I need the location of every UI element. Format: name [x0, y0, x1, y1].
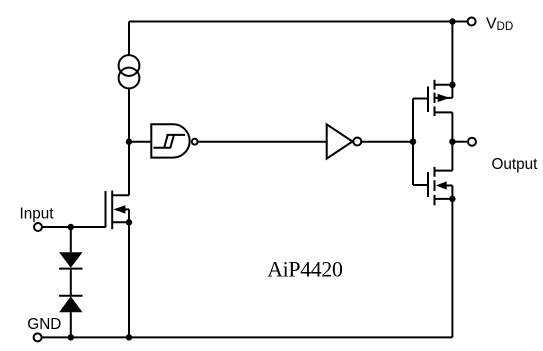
wire input node to D1 anode: [70, 227, 72, 252]
wire Q3 source to bottom rail: [128, 222, 130, 337]
transistor Q3 channel bar: [111, 191, 113, 230]
terminal Input pin: [34, 223, 42, 231]
wire left bus upper segment: [128, 22, 130, 56]
schmitt trigger U1 body: [151, 124, 189, 157]
node A schmitt input junction: [126, 139, 132, 145]
node VDD junction: [449, 18, 455, 24]
transistor Q2 gate bar: [427, 172, 429, 197]
transistor Q3 gate bar: [105, 191, 107, 228]
wire Q1 source to top rail: [451, 22, 453, 85]
wire output node to terminal: [452, 141, 468, 143]
transistor Q3 body arrow (N-channel): [125, 209, 129, 222]
node Q1 body-source dot: [449, 82, 455, 88]
label VDD: [486, 16, 513, 34]
label Output: [492, 156, 539, 173]
label GND: [27, 316, 61, 333]
node Q3 body-source dot: [126, 219, 132, 225]
wire node A to schmitt input: [129, 141, 151, 143]
node input diode junction: [68, 224, 74, 230]
transistor Q2 drain lead: [435, 170, 453, 172]
wire VDD stub to terminal: [452, 21, 467, 23]
wire Q3 drain to node A bus: [128, 142, 130, 196]
svg-text:V: V: [486, 16, 497, 33]
wire D2 anode to bottom rail: [70, 312, 72, 337]
wire Q2 source to bottom rail: [451, 199, 453, 338]
hysteresis symbol of U1: [154, 135, 186, 148]
inverter U2 triangle: [327, 124, 353, 158]
node gate bus junction: [410, 139, 416, 145]
terminal Output pin: [468, 138, 476, 146]
node Q2 body-source dot: [449, 196, 455, 202]
transistor Q1 drain lead: [435, 111, 453, 113]
wire bottom rail GND: [42, 336, 453, 338]
node output junction: [449, 139, 455, 145]
transistor Q2 source lead: [435, 198, 453, 200]
wire D1 cathode to D2 cathode: [70, 269, 72, 296]
terminal VDD pin: [468, 18, 476, 26]
current source I1: [119, 55, 140, 76]
transistor Q1 gate lead: [413, 98, 428, 100]
transistor Q2 gate lead: [413, 184, 428, 186]
svg-text:AiP4420: AiP4420: [267, 258, 343, 282]
bubble U2 output inversion: [353, 138, 361, 146]
svg-text:Output: Output: [492, 156, 539, 173]
wire input to Q3 gate: [42, 226, 106, 228]
wire left bus from current source to Q3 drain: [128, 88, 130, 195]
transistor Q1 body arrow (P-channel): [435, 85, 453, 98]
node bottom rail Q3 source junction: [126, 334, 132, 340]
transistor Q1 gate bar: [427, 87, 429, 113]
transistor Q1 source lead: [435, 84, 453, 86]
transistor Q1 channel segments: [434, 80, 436, 116]
wire U2 output to gate node: [361, 141, 413, 143]
svg-text:DD: DD: [497, 20, 514, 33]
bubble U1 output inversion: [192, 139, 198, 145]
label Input: [20, 206, 55, 223]
transistor Q2 body arrow (N-channel): [446, 186, 452, 199]
node bottom rail diode junction: [68, 334, 74, 340]
wire U1 output to U2 input: [198, 141, 327, 143]
diode D2 (cathode up, anode down): [59, 295, 82, 297]
wire Q1 drain to output node: [451, 112, 453, 141]
terminal GND pin: [34, 333, 42, 341]
label AiP4420 part number: [267, 258, 343, 282]
wire top rail VDD: [129, 21, 452, 23]
wire Q2 drain to output node: [451, 142, 453, 171]
wire gate bus vertical: [412, 99, 414, 186]
svg-text:Input: Input: [20, 206, 55, 223]
transistor Q3 drain lead: [112, 194, 129, 196]
svg-text:GND: GND: [27, 316, 61, 333]
diode D1 (anode up, cathode down): [59, 252, 82, 267]
transistor Q2 channel segments: [434, 167, 436, 205]
transistor Q3 source lead: [112, 221, 129, 223]
